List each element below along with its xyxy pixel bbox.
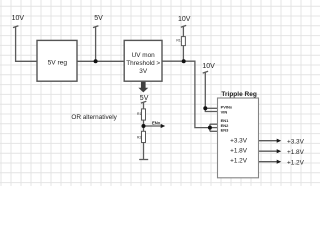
svg-text:EN3: EN3 xyxy=(221,128,230,133)
svg-text:+1.8V: +1.8V xyxy=(287,149,305,156)
svg-text:VIN: VIN xyxy=(221,110,228,115)
svg-text:R2: R2 xyxy=(137,136,141,140)
svg-text:R1: R1 xyxy=(137,112,141,116)
svg-text:UV mon: UV mon xyxy=(132,52,156,59)
svg-text:10V: 10V xyxy=(12,15,25,22)
svg-text:+3.3V: +3.3V xyxy=(287,138,305,145)
svg-text:+1.2V: +1.2V xyxy=(287,159,305,166)
svg-text:Tripple Reg: Tripple Reg xyxy=(221,91,256,98)
svg-text:5V reg: 5V reg xyxy=(48,60,68,67)
svg-text:3V: 3V xyxy=(139,68,148,75)
svg-text:+1.8V: +1.8V xyxy=(230,148,248,155)
svg-text:R1: R1 xyxy=(176,39,180,43)
svg-text:+1.2V: +1.2V xyxy=(230,157,248,164)
svg-text:5V: 5V xyxy=(140,95,149,102)
svg-text:OR alternatively: OR alternatively xyxy=(71,114,117,121)
svg-text:5V: 5V xyxy=(94,15,103,22)
svg-text:Threshold >: Threshold > xyxy=(126,60,160,67)
svg-text:10V: 10V xyxy=(178,16,191,23)
svg-text:ENx: ENx xyxy=(152,120,161,125)
svg-text:+3.3V: +3.3V xyxy=(230,138,248,145)
svg-text:10V: 10V xyxy=(202,63,215,70)
